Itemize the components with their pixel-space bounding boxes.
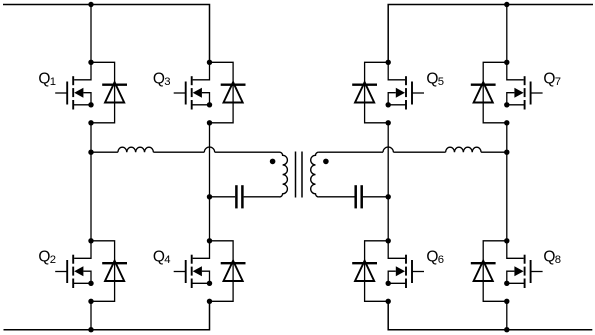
label Q7	[543, 70, 561, 88]
node Q1 source	[88, 102, 93, 107]
diode D4 (body diode of Q4)	[210, 241, 246, 301]
svg-text:Q: Q	[543, 70, 555, 87]
diode D5 (body diode of Q5)	[352, 62, 388, 123]
node Q2 source	[88, 281, 93, 286]
node Q5 diode return	[386, 120, 391, 125]
node Q8 drain	[504, 238, 509, 243]
wire hop to transformer primary	[215, 151, 280, 153]
node Q1 diode return	[88, 120, 93, 125]
node Q5 drain	[386, 60, 391, 65]
node Q2 drain	[88, 238, 93, 243]
node Q4 diode return	[207, 299, 212, 304]
node Q7 diode return	[504, 120, 509, 125]
svg-text:Q: Q	[426, 70, 438, 87]
node Q8 source	[504, 281, 509, 286]
node leg C midpoint	[386, 194, 391, 199]
wire hop over leg C	[383, 147, 393, 152]
diode D8 (body diode of Q8)	[471, 241, 507, 301]
node leg D midpoint	[504, 150, 509, 155]
wire leg D mid (Q7 to Q8)	[506, 123, 508, 241]
wire transformer secondary to hop	[319, 151, 383, 153]
node Q7 source	[504, 102, 509, 107]
node Q3 source	[207, 102, 212, 107]
transformer T1 secondary winding	[311, 152, 319, 197]
svg-text:6: 6	[438, 254, 444, 266]
transistor Q2	[55, 241, 91, 288]
inductor L1	[118, 147, 153, 152]
transistor Q8	[507, 241, 543, 288]
transformer T1 primary winding	[280, 152, 288, 197]
wire leg A mid (Q1 source leg to Q2 drain)	[90, 123, 92, 241]
diode D1 (body diode of Q1)	[91, 62, 127, 123]
node leg A / bottom rail	[88, 327, 93, 332]
label Q3	[153, 70, 171, 88]
label Q1	[38, 70, 56, 88]
wire top rail (left bridge, V1+)	[3, 5, 210, 63]
transformer T1 primary polarity dot	[270, 159, 276, 165]
wire leg B mid to C1	[210, 196, 236, 198]
label Q8	[543, 249, 561, 267]
node leg D / bottom rail	[504, 327, 509, 332]
transistor Q6	[388, 241, 424, 288]
transistor Q5	[388, 62, 424, 109]
wire bottom rail (left bridge, V1-)	[4, 301, 210, 329]
node Q7 drain	[504, 60, 509, 65]
diode D3 (body diode of Q3)	[210, 62, 246, 123]
svg-text:5: 5	[438, 76, 444, 88]
svg-text:Q: Q	[38, 70, 50, 87]
label Q4	[153, 249, 171, 267]
wire leg C mid (Q5 to Q6, continuous under hop)	[387, 123, 389, 241]
node leg B midpoint	[207, 194, 212, 199]
wire L1 to hop	[153, 151, 204, 153]
transistor Q3	[174, 62, 210, 109]
diode D6 (body diode of Q6)	[352, 241, 388, 301]
label Q5	[426, 70, 444, 88]
svg-text:Q: Q	[543, 249, 555, 266]
node leg A / top rail	[88, 2, 93, 7]
node Q6 source	[386, 281, 391, 286]
wire hop to L2	[393, 151, 445, 153]
diode D7 (body diode of Q7)	[471, 62, 507, 123]
wire transformer secondary to C2	[319, 196, 355, 198]
node Q5 source	[386, 102, 391, 107]
wire leg A bottom (Q2 to rail)	[90, 301, 92, 329]
svg-text:4: 4	[164, 254, 170, 266]
svg-text:2: 2	[50, 254, 56, 266]
node Q6 drain	[386, 238, 391, 243]
label Q2	[38, 249, 56, 267]
node Q8 diode return	[504, 299, 509, 304]
node Q1 drain	[88, 60, 93, 65]
svg-text:7: 7	[555, 76, 561, 88]
transistor Q7	[507, 62, 543, 109]
svg-text:Q: Q	[38, 249, 50, 266]
inductor L2	[446, 147, 482, 152]
wire leg B mid (Q3 to Q4, continuous under hop)	[209, 123, 211, 241]
svg-text:8: 8	[555, 254, 561, 266]
node Q4 drain	[207, 238, 212, 243]
diode D2 (body diode of Q2)	[91, 241, 127, 301]
wire hop over leg B	[204, 147, 214, 152]
node Q3 diode return	[207, 120, 212, 125]
label Q6	[426, 249, 444, 267]
wire C1 to transformer primary	[244, 196, 280, 198]
wire leg D bottom (Q8 to rail)	[506, 301, 508, 329]
svg-text:Q: Q	[153, 70, 165, 87]
node Q2 diode return	[88, 299, 93, 304]
node leg A midpoint	[88, 150, 93, 155]
svg-text:Q: Q	[153, 249, 165, 266]
svg-text:Q: Q	[426, 249, 438, 266]
wire C2 to leg C mid	[363, 196, 388, 198]
wire bottom rail (right bridge, V2-)	[388, 301, 592, 329]
transistor Q1	[55, 62, 91, 109]
wire leg D top (rail to Q7 drain)	[506, 5, 508, 63]
capacitor C2	[356, 185, 362, 208]
wire top rail (right bridge, V2+)	[388, 5, 593, 63]
transformer T1 core	[296, 152, 303, 198]
capacitor C1	[236, 185, 242, 208]
transistor Q4	[174, 241, 210, 288]
node Q3 drain	[207, 60, 212, 65]
svg-text:3: 3	[164, 76, 170, 88]
wire leg A top (rail to Q1 drain)	[90, 5, 92, 63]
transformer T1 secondary polarity dot	[323, 159, 329, 165]
svg-text:1: 1	[50, 76, 56, 88]
node Q4 source	[207, 281, 212, 286]
wire L2 to leg D	[481, 151, 507, 153]
wire leg A mid to L1	[91, 151, 118, 153]
node Q6 diode return	[386, 299, 391, 304]
node leg D / top rail	[504, 2, 509, 7]
